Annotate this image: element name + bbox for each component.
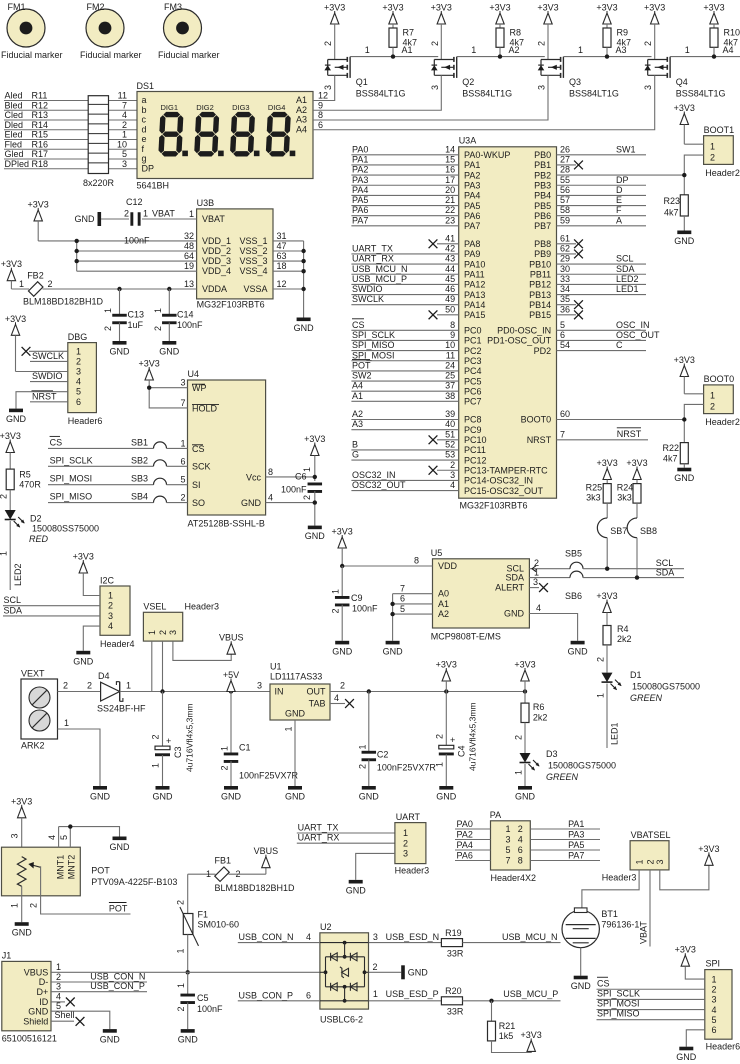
svg-text:GND: GND xyxy=(178,1035,199,1045)
svg-text:OSC_OUT: OSC_OUT xyxy=(616,330,660,340)
svg-text:60: 60 xyxy=(560,409,570,419)
svg-text:5: 5 xyxy=(59,835,69,840)
svg-text:Header4X2: Header4X2 xyxy=(491,873,537,883)
svg-text:SB4: SB4 xyxy=(131,492,148,502)
capacitor C5 100nF xyxy=(187,972,189,995)
svg-text:7: 7 xyxy=(506,856,511,866)
svg-text:1: 1 xyxy=(122,130,127,140)
no-connect X on U3A pin 61 xyxy=(557,243,577,245)
svg-text:33R: 33R xyxy=(447,949,464,959)
battery BT1 796136-1 xyxy=(562,910,599,947)
svg-text:33: 33 xyxy=(560,274,570,284)
svg-text:C3: C3 xyxy=(173,746,183,758)
svg-text:Header2: Header2 xyxy=(705,168,740,178)
svg-text:5: 5 xyxy=(712,1015,717,1025)
svg-text:DBG: DBG xyxy=(68,332,88,342)
wire SB8 to SDA xyxy=(636,538,638,578)
no-connect X on U3A pin 2 xyxy=(437,469,459,471)
svg-text:50: 50 xyxy=(445,304,455,314)
svg-text:2: 2 xyxy=(48,279,53,289)
svg-text:FB2: FB2 xyxy=(27,271,44,281)
fuse F1 SM010-60 xyxy=(183,914,193,935)
svg-text:VDD_4: VDD_4 xyxy=(202,266,231,276)
svg-text:2: 2 xyxy=(340,681,345,691)
svg-text:VDD: VDD xyxy=(438,561,458,571)
svg-text:PA8: PA8 xyxy=(464,239,480,249)
svg-text:DP: DP xyxy=(616,175,629,185)
svg-text:3: 3 xyxy=(323,85,333,90)
svg-text:5: 5 xyxy=(400,604,405,614)
potentiometer POT PTV09A-4225F-B103 xyxy=(2,847,81,896)
svg-text:470R: 470R xyxy=(19,480,41,490)
no-connect X on U3A pin 51 xyxy=(437,439,459,441)
wire Q3 drain to DS1 pin 8 xyxy=(313,75,548,120)
svg-text:Fiducial marker: Fiducial marker xyxy=(1,50,63,60)
svg-text:VDD_2: VDD_2 xyxy=(202,246,231,256)
ground for C1 xyxy=(224,786,238,790)
svg-text:D-: D- xyxy=(39,977,49,987)
svg-text:GREEN: GREEN xyxy=(630,693,663,703)
svg-text:43: 43 xyxy=(445,254,455,264)
svg-text:2: 2 xyxy=(63,681,68,691)
svg-text:1: 1 xyxy=(434,762,444,767)
svg-text:796136-1: 796136-1 xyxy=(601,920,639,930)
svg-text:1: 1 xyxy=(143,209,148,219)
svg-text:4: 4 xyxy=(268,493,273,503)
svg-text:A1: A1 xyxy=(296,95,307,105)
svg-text:UART: UART xyxy=(396,812,421,822)
svg-text:PA2: PA2 xyxy=(464,170,480,180)
svg-text:PA0-WKUP: PA0-WKUP xyxy=(464,150,510,160)
svg-text:DIG2: DIG2 xyxy=(196,103,214,112)
svg-text:2k2: 2k2 xyxy=(617,634,632,644)
svg-text:SPI: SPI xyxy=(706,959,721,969)
svg-text:100nF: 100nF xyxy=(197,1004,223,1014)
ground for C9 xyxy=(335,641,349,645)
svg-text:59: 59 xyxy=(560,215,570,225)
svg-text:31: 31 xyxy=(277,231,287,241)
svg-text:GND: GND xyxy=(568,646,589,656)
svg-text:GND: GND xyxy=(28,1006,49,1016)
svg-text:1: 1 xyxy=(331,589,341,594)
svg-text:1: 1 xyxy=(76,346,81,356)
svg-text:3: 3 xyxy=(403,849,408,859)
svg-text:Vcc: Vcc xyxy=(246,472,262,482)
svg-text:g: g xyxy=(142,154,147,164)
svg-text:VDD_3: VDD_3 xyxy=(202,256,231,266)
svg-text:3: 3 xyxy=(506,835,511,845)
svg-text:SDA: SDA xyxy=(505,573,524,583)
svg-text:Q4: Q4 xyxy=(676,77,688,87)
svg-text:D: D xyxy=(616,185,623,195)
svg-text:34: 34 xyxy=(560,284,570,294)
svg-text:NRST: NRST xyxy=(527,435,552,445)
svg-text:PA6: PA6 xyxy=(352,205,368,215)
svg-text:R15: R15 xyxy=(32,130,49,140)
wire gate net A2 xyxy=(457,56,545,58)
svg-text:POT: POT xyxy=(91,866,110,876)
svg-text:PA5: PA5 xyxy=(568,840,584,850)
svg-text:3: 3 xyxy=(108,611,113,621)
svg-text:15: 15 xyxy=(445,154,455,164)
svg-text:1: 1 xyxy=(403,828,408,838)
svg-text:Header6: Header6 xyxy=(68,416,103,426)
svg-text:6: 6 xyxy=(180,456,185,466)
svg-text:A1: A1 xyxy=(352,391,363,401)
svg-text:SB8: SB8 xyxy=(640,526,657,536)
svg-text:1: 1 xyxy=(126,681,131,691)
svg-text:PA1: PA1 xyxy=(352,154,368,164)
svg-text:R9: R9 xyxy=(617,28,629,38)
svg-text:SPI_MISO: SPI_MISO xyxy=(597,1009,640,1019)
svg-text:A2: A2 xyxy=(296,105,307,115)
svg-text:28: 28 xyxy=(560,165,570,175)
svg-text:2: 2 xyxy=(430,41,440,46)
svg-text:18: 18 xyxy=(277,261,287,271)
svg-text:SW1: SW1 xyxy=(616,144,636,154)
svg-text:24: 24 xyxy=(445,360,455,370)
svg-text:PA9: PA9 xyxy=(464,249,480,259)
svg-text:4: 4 xyxy=(306,932,311,942)
svg-text:PA6: PA6 xyxy=(464,211,480,221)
svg-text:USB_MCU_P: USB_MCU_P xyxy=(503,989,558,999)
svg-text:C9: C9 xyxy=(351,593,363,603)
svg-text:SS24BF-HF: SS24BF-HF xyxy=(97,704,146,714)
wire FB1 to VBUS flag xyxy=(229,873,266,875)
svg-text:USB_MCU_P: USB_MCU_P xyxy=(352,274,407,284)
svg-text:2: 2 xyxy=(645,859,655,864)
svg-text:CS: CS xyxy=(192,444,205,454)
svg-text:GND: GND xyxy=(110,842,131,852)
svg-text:R11: R11 xyxy=(32,91,48,101)
POT wiper arrow xyxy=(32,865,41,867)
svg-text:UART_RX: UART_RX xyxy=(298,833,340,843)
svg-text:D3: D3 xyxy=(546,749,558,759)
ground for R22 xyxy=(677,468,691,472)
ground for POT xyxy=(15,922,29,926)
svg-text:e: e xyxy=(142,134,147,144)
svg-text:150080GS75000: 150080GS75000 xyxy=(548,761,616,771)
svg-text:LED2: LED2 xyxy=(13,563,23,586)
svg-text:PB9: PB9 xyxy=(534,249,551,259)
svg-text:1: 1 xyxy=(357,744,367,749)
capacitor C4 4u7 16V xyxy=(445,692,447,745)
svg-text:USB_CON_P: USB_CON_P xyxy=(239,990,294,1000)
svg-text:62: 62 xyxy=(560,243,570,253)
svg-text:D2: D2 xyxy=(30,514,42,524)
svg-text:64: 64 xyxy=(184,251,194,261)
svg-text:5: 5 xyxy=(506,845,511,855)
svg-text:36: 36 xyxy=(560,304,570,314)
transistor Q4 BSS84LT1G xyxy=(648,59,668,61)
resistor R9 4k7 xyxy=(603,28,611,47)
svg-text:1k5: 1k5 xyxy=(499,1031,514,1041)
ground for R23 xyxy=(677,231,691,235)
svg-text:100nF: 100nF xyxy=(281,485,307,495)
svg-text:DIG3: DIG3 xyxy=(232,103,250,112)
resistor R4 2k2 xyxy=(603,626,611,645)
svg-text:PB7: PB7 xyxy=(534,221,551,231)
capacitor C3 4u7 16V xyxy=(162,692,164,746)
svg-text:1: 1 xyxy=(189,209,194,219)
svg-text:GND: GND xyxy=(408,967,429,977)
svg-text:SB3: SB3 xyxy=(131,474,148,484)
resistor R24 3k3 xyxy=(633,484,641,504)
svg-text:1: 1 xyxy=(471,45,476,55)
svg-text:1: 1 xyxy=(10,903,20,908)
svg-text:SDA: SDA xyxy=(4,606,23,616)
svg-text:SPI_MISO: SPI_MISO xyxy=(50,492,93,502)
svg-text:U5: U5 xyxy=(431,548,443,558)
svg-text:4: 4 xyxy=(712,1005,717,1015)
svg-text:4k7: 4k7 xyxy=(664,208,679,218)
wire VBATSEL pin1 to BT1 xyxy=(582,870,639,910)
svg-text:R22: R22 xyxy=(663,443,680,453)
no-connect X on U1 TAB pin 4 xyxy=(330,703,345,705)
svg-text:SO: SO xyxy=(192,498,205,508)
svg-text:1: 1 xyxy=(710,391,715,401)
svg-text:Cled: Cled xyxy=(5,110,24,120)
svg-text:PA0: PA0 xyxy=(457,819,473,829)
svg-text:OSC32_OUT: OSC32_OUT xyxy=(352,480,406,490)
svg-text:FM2: FM2 xyxy=(87,2,105,12)
svg-text:38: 38 xyxy=(445,391,455,401)
svg-text:GND: GND xyxy=(571,981,592,991)
svg-text:3k3: 3k3 xyxy=(617,493,632,503)
svg-text:UART_TX: UART_TX xyxy=(352,243,393,253)
svg-text:C6: C6 xyxy=(295,472,307,482)
svg-text:Dled: Dled xyxy=(5,120,24,130)
svg-text:GND: GND xyxy=(110,347,131,357)
svg-text:PC5: PC5 xyxy=(464,376,482,386)
svg-text:1: 1 xyxy=(685,45,690,55)
svg-text:6: 6 xyxy=(306,990,311,1000)
wire U1 OUT to +3V3 rail xyxy=(330,691,525,693)
resistor R10 4k7 xyxy=(710,28,718,47)
svg-text:PB11: PB11 xyxy=(530,269,551,279)
svg-text:4k7: 4k7 xyxy=(663,454,678,464)
wire UART pin3 to ground xyxy=(356,853,395,880)
svg-text:LED1: LED1 xyxy=(610,722,620,745)
svg-text:a: a xyxy=(142,95,147,105)
no-connect X on U3A pin 36 xyxy=(557,314,577,316)
svg-text:3: 3 xyxy=(430,85,440,90)
svg-text:PA11: PA11 xyxy=(464,269,485,279)
svg-text:8x220R: 8x220R xyxy=(83,178,115,188)
resistor R19 33R xyxy=(441,939,462,947)
svg-text:55: 55 xyxy=(560,175,570,185)
svg-text:POT: POT xyxy=(109,904,128,914)
capacitor C2 100nF25VX7R xyxy=(367,689,371,693)
svg-text:PC7: PC7 xyxy=(464,397,482,407)
wire D4 cathode to U1 IN (+5V rail) xyxy=(120,691,270,693)
svg-text:PA3: PA3 xyxy=(352,175,368,185)
svg-text:SW2: SW2 xyxy=(352,371,372,381)
svg-text:PA13: PA13 xyxy=(464,290,485,300)
svg-text:25: 25 xyxy=(445,371,455,381)
ground for VEXT xyxy=(93,786,107,790)
svg-text:3: 3 xyxy=(643,85,653,90)
svg-text:A3: A3 xyxy=(352,419,363,429)
svg-text:51: 51 xyxy=(445,429,455,439)
svg-text:VBAT: VBAT xyxy=(202,214,225,224)
power +3V3 on rail at R6 xyxy=(523,689,527,693)
svg-text:PA3: PA3 xyxy=(568,829,584,839)
svg-text:2: 2 xyxy=(450,460,455,470)
svg-text:1: 1 xyxy=(0,551,9,556)
svg-text:4: 4 xyxy=(76,377,81,387)
fiducial marker FM1 xyxy=(7,9,45,47)
svg-text:6: 6 xyxy=(76,397,81,407)
ground for J1 xyxy=(103,1029,117,1033)
svg-text:I2C: I2C xyxy=(100,576,115,586)
svg-text:R13: R13 xyxy=(32,110,49,120)
svg-text:VSS_2: VSS_2 xyxy=(239,246,267,256)
svg-text:BSS84LT1G: BSS84LT1G xyxy=(569,89,619,99)
svg-text:5: 5 xyxy=(560,320,565,330)
wire PB2 to BOOT1/R23 junction xyxy=(557,174,685,176)
svg-text:R4: R4 xyxy=(617,624,629,634)
svg-text:DPled: DPled xyxy=(5,159,30,169)
svg-text:USB_ESD_P: USB_ESD_P xyxy=(386,989,439,999)
svg-text:U1: U1 xyxy=(270,662,282,672)
svg-text:PA7: PA7 xyxy=(568,850,584,860)
svg-text:R24: R24 xyxy=(617,483,634,493)
svg-text:PC0: PC0 xyxy=(464,326,482,336)
svg-text:PA14: PA14 xyxy=(464,300,485,310)
svg-text:VBATSEL: VBATSEL xyxy=(631,830,671,840)
wire I2C pin1 to +3V3 xyxy=(83,573,100,596)
svg-text:1: 1 xyxy=(108,591,113,601)
svg-text:PB3: PB3 xyxy=(534,180,551,190)
svg-text:1: 1 xyxy=(153,308,163,313)
svg-text:Fiducial marker: Fiducial marker xyxy=(80,50,142,60)
7-segment digit 1 xyxy=(159,112,184,157)
svg-text:1: 1 xyxy=(284,726,294,731)
svg-text:A3: A3 xyxy=(616,45,627,55)
svg-text:3: 3 xyxy=(450,470,455,480)
svg-text:8: 8 xyxy=(450,320,455,330)
svg-text:BSS84LT1G: BSS84LT1G xyxy=(676,89,726,99)
net USB_MCU_P from R20 xyxy=(463,1000,561,1002)
wires BOOT0 pins xyxy=(684,393,703,395)
wire Q1 drain to DS1 pin 12 xyxy=(313,75,335,100)
svg-text:Aled: Aled xyxy=(5,91,23,101)
svg-text:OSC_IN: OSC_IN xyxy=(616,320,650,330)
svg-text:26: 26 xyxy=(560,144,570,154)
wire gate net A3 xyxy=(563,56,651,58)
svg-text:PA4: PA4 xyxy=(457,840,473,850)
fiducial marker FM2 xyxy=(86,9,124,47)
svg-text:1: 1 xyxy=(365,45,370,55)
svg-text:PA1: PA1 xyxy=(464,160,480,170)
svg-text:PB12: PB12 xyxy=(529,280,551,290)
svg-text:5641BH: 5641BH xyxy=(137,181,170,191)
svg-text:1: 1 xyxy=(206,869,211,879)
resistor R23 4k7 xyxy=(680,195,688,216)
svg-text:DS1: DS1 xyxy=(137,81,155,91)
svg-text:R8: R8 xyxy=(510,28,522,38)
svg-text:VSSA: VSSA xyxy=(243,284,267,294)
svg-text:4: 4 xyxy=(450,480,455,490)
resistor R25 3k3 xyxy=(603,484,611,504)
svg-text:10: 10 xyxy=(445,340,455,350)
svg-text:48: 48 xyxy=(184,241,194,251)
no-connect X on J1 ID xyxy=(51,1001,65,1003)
svg-text:SPI_MOSI: SPI_MOSI xyxy=(352,350,395,360)
wire VBATSEL pin2 to net VBAT xyxy=(649,870,651,947)
svg-text:ALERT: ALERT xyxy=(495,583,524,593)
svg-text:USB_CON_N: USB_CON_N xyxy=(239,932,294,942)
svg-text:VDDA: VDDA xyxy=(202,284,227,294)
svg-text:41: 41 xyxy=(445,233,455,243)
wire SPI pin1 to +3V3 xyxy=(685,966,705,979)
svg-text:150080GS75000: 150080GS75000 xyxy=(632,682,700,692)
svg-text:2: 2 xyxy=(596,657,606,662)
capacitor C1 100nF25VX7R xyxy=(230,692,232,754)
svg-text:USB_CON_N: USB_CON_N xyxy=(90,972,145,982)
transistor Q3 BSS84LT1G xyxy=(541,59,561,61)
svg-text:53: 53 xyxy=(445,450,455,460)
wire SPI pin6 to ground xyxy=(686,1030,705,1047)
ground for POT mounting xyxy=(113,837,127,841)
svg-text:A4: A4 xyxy=(296,124,307,134)
svg-text:c: c xyxy=(142,115,147,125)
svg-text:100nF25VX7R: 100nF25VX7R xyxy=(377,763,437,773)
svg-text:U3A: U3A xyxy=(459,136,477,146)
svg-text:2: 2 xyxy=(643,41,653,46)
svg-text:POT: POT xyxy=(352,360,371,370)
svg-text:Header3: Header3 xyxy=(185,602,220,612)
svg-text:44: 44 xyxy=(445,264,455,274)
svg-text:R10: R10 xyxy=(724,28,740,38)
svg-text:3: 3 xyxy=(257,681,262,691)
svg-text:USB_MCU_N: USB_MCU_N xyxy=(352,264,408,274)
svg-text:57: 57 xyxy=(560,195,570,205)
svg-text:PC15-OSC32_OUT: PC15-OSC32_OUT xyxy=(464,486,544,496)
resistor R5 470R xyxy=(6,469,14,490)
svg-text:SCK: SCK xyxy=(192,462,211,472)
svg-text:14: 14 xyxy=(445,144,455,154)
svg-text:GND: GND xyxy=(90,792,111,802)
ground for U5 address pins xyxy=(386,641,400,645)
svg-text:1: 1 xyxy=(180,438,185,448)
svg-text:A3: A3 xyxy=(296,115,307,125)
wire R18 to DS1 pin 3 xyxy=(109,168,138,170)
svg-text:BOOT1: BOOT1 xyxy=(704,125,735,135)
ground for C3 xyxy=(156,786,170,790)
svg-text:1: 1 xyxy=(710,142,715,152)
svg-text:4: 4 xyxy=(518,835,523,845)
wire gate net A4 xyxy=(670,56,740,58)
svg-text:UART_RX: UART_RX xyxy=(352,254,394,264)
no-connect X on U3A pin 41 xyxy=(437,243,459,245)
wire SB7 to SCL xyxy=(606,538,608,569)
ground for SPI xyxy=(679,1047,693,1051)
svg-text:21: 21 xyxy=(445,195,455,205)
svg-text:FM3: FM3 xyxy=(164,2,182,12)
svg-text:PA1: PA1 xyxy=(568,819,584,829)
capacitor C13 1uF xyxy=(119,289,121,316)
svg-text:DP: DP xyxy=(142,163,155,173)
svg-text:2: 2 xyxy=(537,41,547,46)
svg-text:Q2: Q2 xyxy=(462,77,474,87)
svg-text:PB2: PB2 xyxy=(534,170,551,180)
svg-text:Header3: Header3 xyxy=(395,866,430,876)
svg-text:Eled: Eled xyxy=(5,130,23,140)
svg-text:BLM18BD182BH1D: BLM18BD182BH1D xyxy=(215,883,296,893)
svg-text:PB14: PB14 xyxy=(529,300,551,310)
